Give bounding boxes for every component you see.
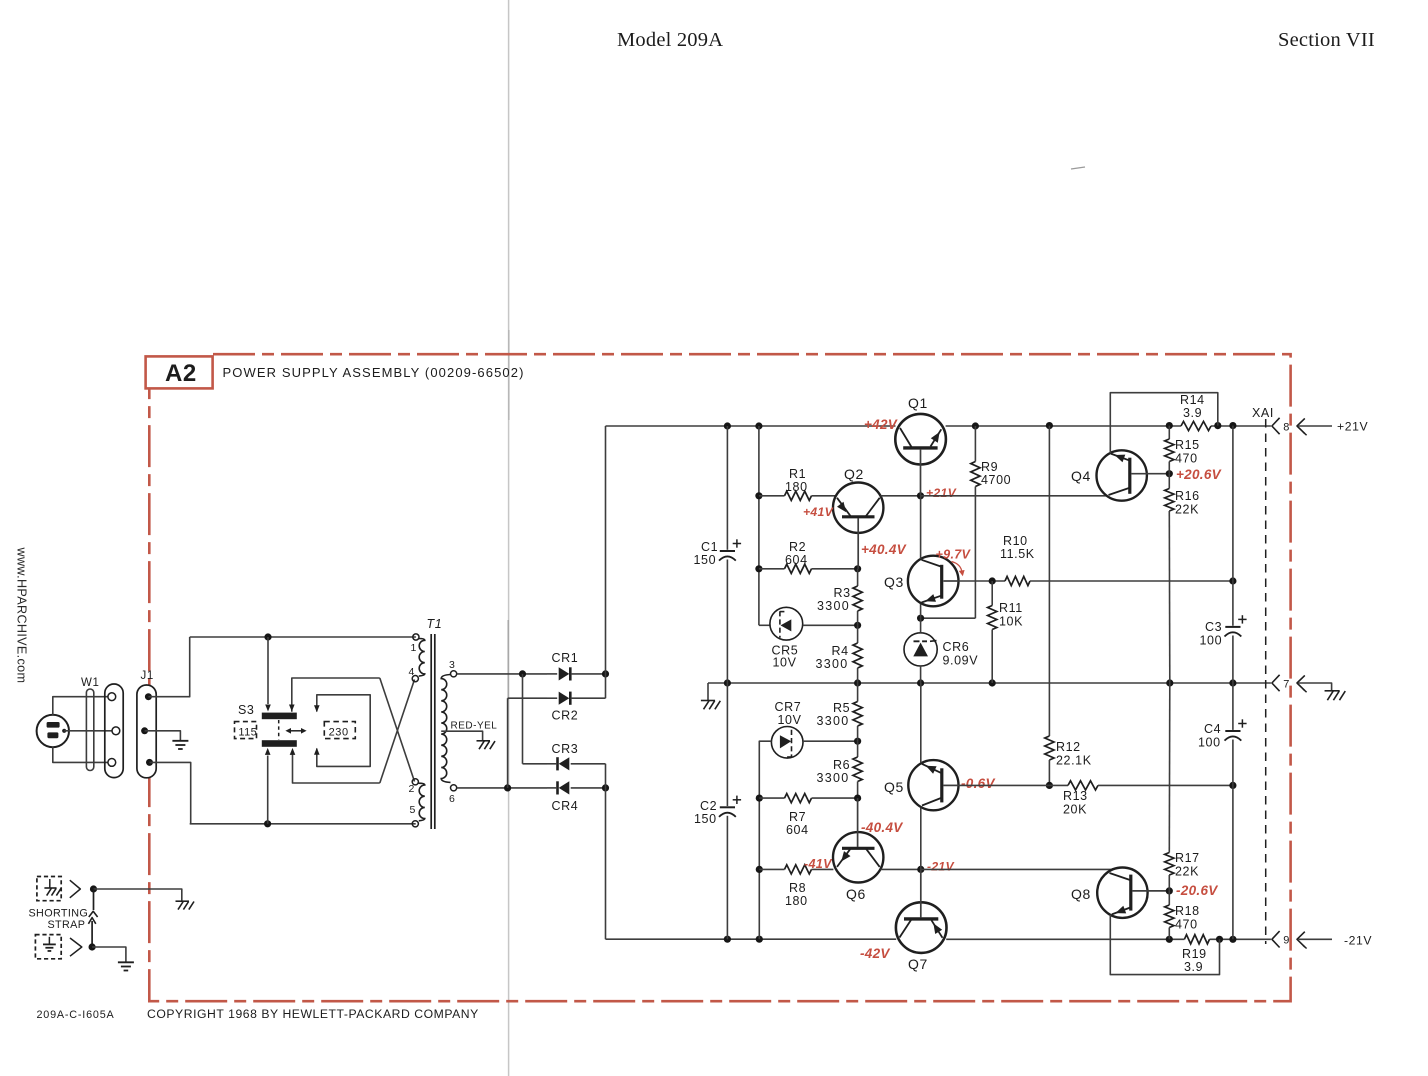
Q2 collector diagonal <box>866 498 880 516</box>
svg-text:J1: J1 <box>141 670 154 682</box>
svg-text:CR4: CR4 <box>552 799 579 813</box>
node R7 left <box>756 795 763 802</box>
wire AC bottom line <box>190 823 416 825</box>
resistor R14 <box>1181 421 1211 430</box>
svg-text:CR1: CR1 <box>552 651 579 665</box>
Q2 base bar <box>842 515 875 518</box>
J1 pin middle <box>141 727 148 734</box>
T1 secondary pin 6 <box>451 785 457 791</box>
svg-text:209A-C-I605A: 209A-C-I605A <box>37 1009 115 1021</box>
wire C4 column top <box>1232 683 1234 730</box>
svg-text:180: 180 <box>785 894 808 908</box>
zener CR7 diode <box>780 735 791 748</box>
plug face pin 1 <box>108 693 116 701</box>
wire J1 top to line <box>148 637 189 697</box>
resistor R1 <box>759 495 785 497</box>
Q3 base lead <box>943 580 958 582</box>
svg-text:R15: R15 <box>1175 438 1200 452</box>
wire J1 bottom to line <box>150 762 191 823</box>
T1 primary pin 1 <box>413 634 419 640</box>
diode CR4 <box>559 781 570 794</box>
capacitor C2 <box>720 806 735 808</box>
XA1 dashed outline <box>1265 419 1267 944</box>
node R11 top <box>989 577 996 584</box>
svg-text:CR6: CR6 <box>943 640 970 654</box>
svg-text:CR3: CR3 <box>552 742 579 756</box>
svg-text:A2: A2 <box>165 360 197 387</box>
node R2 left <box>755 565 762 572</box>
J1 pin bottom <box>146 759 153 766</box>
svg-text:+42V: +42V <box>864 417 898 432</box>
wire pin3 to CR1 <box>457 673 547 675</box>
svg-text:Q5: Q5 <box>884 779 904 795</box>
wire Q6 collector to -21V node <box>881 868 921 870</box>
wire -21V row to Q8 <box>921 868 1113 870</box>
svg-text:R3: R3 <box>834 586 851 600</box>
node CR7 R5 R6 junction <box>854 738 861 745</box>
transistor Q7 circle <box>896 902 947 953</box>
svg-text:Q3: Q3 <box>884 574 904 590</box>
wire CR7 right lead <box>803 740 858 742</box>
node bottom rail left column <box>756 936 763 943</box>
Q8 base lead <box>1132 890 1169 892</box>
svg-text:C3: C3 <box>1205 620 1222 634</box>
svg-text:Model 209A: Model 209A <box>617 29 723 51</box>
svg-text:8: 8 <box>1283 421 1289 433</box>
svg-text:9.09V: 9.09V <box>943 654 979 668</box>
transistor Q2 circle <box>833 483 883 533</box>
node R3 R4 CR5 junction <box>854 622 861 629</box>
svg-text:R8: R8 <box>789 881 806 895</box>
W1 cable bar <box>86 689 93 771</box>
svg-text:+21V: +21V <box>1337 420 1368 434</box>
plug W1 center pin <box>62 729 66 733</box>
node mid rail CR6-Q5 <box>917 679 924 686</box>
node R14 left R15 top <box>1166 422 1173 429</box>
Q6 emitter diagonal <box>837 849 851 867</box>
resistor R11 <box>991 581 993 606</box>
node CR1 cathode junction <box>602 670 609 677</box>
svg-text:R1: R1 <box>789 467 806 481</box>
resistor R6 <box>857 741 859 757</box>
wire +21V row to Q4 <box>921 495 1107 497</box>
Q7 base bar <box>904 917 938 920</box>
J1 pin top <box>145 693 152 700</box>
wire plug middle to connector <box>64 730 112 732</box>
wire -42V bottom rail <box>606 938 897 940</box>
T1 secondary winding <box>441 675 450 783</box>
wire -21V rail R19 to pin9 <box>1210 938 1271 940</box>
svg-text:3300: 3300 <box>817 771 850 785</box>
wire Q5 collector down <box>920 808 922 870</box>
wire top rail Q1 to R14 <box>946 425 1181 427</box>
wire strap top to ground <box>94 889 182 901</box>
S3 movable plate lower <box>262 740 297 747</box>
ground at strap top wire <box>176 900 190 902</box>
strap bottom chevron <box>70 938 82 956</box>
svg-text:R4: R4 <box>832 644 849 658</box>
S3 position 115 box <box>235 722 257 739</box>
resistor R7 <box>759 797 784 799</box>
plug face pin 2 <box>112 727 120 735</box>
svg-text:R6: R6 <box>833 758 850 772</box>
Q1 base bar <box>903 446 937 449</box>
Q7 emitter diagonal <box>932 920 943 938</box>
strap top chevron <box>70 880 81 898</box>
svg-text:R16: R16 <box>1175 489 1200 503</box>
svg-text:115: 115 <box>238 727 257 739</box>
plug face pin 3 <box>108 759 116 767</box>
Q7 base stem <box>920 869 922 917</box>
svg-text:+9.7V: +9.7V <box>936 548 972 562</box>
resistor R3 <box>857 569 859 586</box>
svg-text:R11: R11 <box>999 601 1023 615</box>
svg-text:Q6: Q6 <box>846 886 866 902</box>
diode CR2 <box>559 692 570 705</box>
svg-text:STRAP: STRAP <box>48 919 86 931</box>
svg-text:3300: 3300 <box>817 714 850 728</box>
svg-text:-21V: -21V <box>927 860 955 874</box>
node AC top junction <box>264 633 271 640</box>
svg-text:22.1K: 22.1K <box>1056 754 1092 768</box>
Q2 base stem <box>857 518 859 569</box>
wire AC top line <box>190 636 416 638</box>
zener CR6 circle <box>904 633 937 666</box>
strap link arrow <box>91 921 93 947</box>
Q4 collector diagonal <box>1109 488 1130 495</box>
chassis box ground symbol <box>49 879 51 888</box>
svg-text:T1: T1 <box>427 617 443 631</box>
Q8 emitter diagonal <box>1112 908 1130 915</box>
T1 primary winding upper <box>419 639 425 677</box>
svg-text:470: 470 <box>1175 452 1198 466</box>
Q4 base bar <box>1128 458 1131 494</box>
transistor Q6 circle <box>833 832 883 882</box>
connector pin 8 <box>1272 418 1280 434</box>
ground at J1 <box>172 740 188 742</box>
node R12 column top <box>1046 422 1053 429</box>
svg-text:7: 7 <box>1283 678 1289 690</box>
transistor Q4 circle <box>1097 450 1147 500</box>
svg-text:R14: R14 <box>1180 393 1205 407</box>
wire -0.6V row <box>959 784 1069 786</box>
Q8 collector diagonal <box>1110 873 1131 880</box>
wire top rail R14 to pin8 <box>1211 425 1271 427</box>
svg-text:10K: 10K <box>999 615 1023 629</box>
node AC bottom junction <box>264 820 271 827</box>
svg-text:SHORTING: SHORTING <box>29 908 89 920</box>
svg-text:1: 1 <box>411 642 417 654</box>
Q5 base lead <box>944 784 959 786</box>
svg-text:9: 9 <box>1283 935 1289 947</box>
resistor R9 <box>974 426 976 462</box>
node mid rail C1-C2 <box>724 679 731 686</box>
svg-text:4: 4 <box>409 666 415 678</box>
transistor Q1 circle <box>895 414 946 465</box>
wire C2 bottom lead <box>726 816 728 939</box>
svg-text:Q4: Q4 <box>1071 468 1091 484</box>
Q3 base bar <box>940 565 943 599</box>
wire Q3 emitter to R9 <box>921 617 976 619</box>
svg-text:Q8: Q8 <box>1071 886 1091 902</box>
wire Q3 collector up <box>920 496 922 559</box>
Q1 base stem <box>920 449 922 496</box>
svg-text:XAI: XAI <box>1252 406 1274 420</box>
svg-text:+41V: +41V <box>803 505 834 519</box>
node C3 column top <box>1229 422 1236 429</box>
svg-text:R10: R10 <box>1003 534 1028 548</box>
resistor R17 <box>1168 683 1171 853</box>
wire Q3 emitter down <box>920 604 922 618</box>
svg-text:R2: R2 <box>789 540 806 554</box>
node R19 right loop <box>1216 936 1223 943</box>
resistor R2 <box>759 568 785 570</box>
svg-text:10V: 10V <box>773 656 797 670</box>
svg-text:3300: 3300 <box>816 657 849 671</box>
svg-text:+40.4V: +40.4V <box>861 542 907 557</box>
Q6 base bar <box>842 847 875 850</box>
strap link break chevron <box>89 911 98 917</box>
transistor Q8 circle <box>1097 868 1147 918</box>
svg-text:C2: C2 <box>700 799 717 813</box>
node R6 R7 Q6 junction <box>854 795 861 802</box>
Q1 collector diagonal <box>900 428 912 447</box>
wire J1 middle to ground <box>145 731 181 740</box>
svg-text:6: 6 <box>449 793 455 805</box>
S3 actuator dashed link <box>278 720 280 740</box>
S3 position 230 box <box>324 722 355 739</box>
capacitor C3 <box>1225 626 1240 628</box>
Q8 base bar <box>1129 875 1132 911</box>
node CR4 junction pin6 <box>504 784 511 791</box>
wire R1 column <box>758 426 760 625</box>
wire C3 column top <box>1232 426 1234 626</box>
svg-text:3300: 3300 <box>817 599 850 613</box>
node strap top <box>90 885 97 892</box>
svg-text:-41V: -41V <box>804 857 833 871</box>
wire 0V mid rail <box>708 682 1271 684</box>
wire S3 upper feed <box>267 637 269 704</box>
zener CR5 diode <box>781 619 792 631</box>
connector pin 9 <box>1272 931 1280 947</box>
svg-text:C4: C4 <box>1204 722 1221 736</box>
transistor Q3 circle <box>908 556 959 607</box>
svg-text:-20.6V: -20.6V <box>1176 883 1218 898</box>
Q3 emitter diagonal <box>922 596 941 603</box>
node R8 left <box>756 866 763 873</box>
wire Q2 collector to +21V node <box>881 495 921 497</box>
wire Q8 emitter loop to R19 right <box>1110 915 1219 975</box>
scan speck <box>1071 167 1085 169</box>
resistor R18 <box>1168 891 1170 905</box>
wire +42V top rail left <box>606 425 896 427</box>
wire CR5 left lead <box>759 624 770 626</box>
svg-text:150: 150 <box>694 553 717 567</box>
Q5 emitter diagonal <box>922 764 941 773</box>
node strap bottom <box>89 943 96 950</box>
wire C2 top lead <box>726 683 728 806</box>
svg-text:604: 604 <box>785 553 808 567</box>
ground at strap bottom wire <box>118 961 134 963</box>
wire pin6 to CR4 <box>457 787 547 789</box>
wire Q5 emitter up <box>920 683 922 763</box>
shorting strap earth box <box>35 935 61 959</box>
wire Q4 emitter loop to R14 right <box>1110 393 1218 454</box>
resistor R16 <box>1168 474 1170 489</box>
resistor R13 <box>1068 781 1098 790</box>
wire CR2 to pin6 link <box>507 698 509 788</box>
plug W1 body circle <box>37 715 69 747</box>
Q4 emitter diagonal <box>1111 454 1129 461</box>
wire C4 column bottom <box>1232 740 1234 940</box>
svg-text:R5: R5 <box>833 701 850 715</box>
node CR4 anode junction <box>602 784 609 791</box>
wire CR6 top lead <box>920 618 922 633</box>
svg-text:20K: 20K <box>1063 803 1087 817</box>
svg-text:100: 100 <box>1198 736 1221 750</box>
svg-text:+21V: +21V <box>926 486 957 500</box>
node Q8 base R17 R18 <box>1166 887 1173 894</box>
svg-text:-42V: -42V <box>860 946 890 961</box>
resistor R10 <box>1005 576 1030 585</box>
Q6 base stem <box>857 798 859 847</box>
plug W1 prong lower <box>47 732 58 738</box>
svg-text:R12: R12 <box>1056 740 1081 754</box>
wire plug top to connector <box>53 697 108 715</box>
resistor R15 <box>1168 426 1170 439</box>
node Q1 base Q3 collector <box>917 492 924 499</box>
zener CR5 circle <box>770 607 803 640</box>
svg-text:150: 150 <box>694 812 717 826</box>
node mid rail R16-R17 <box>1166 679 1173 686</box>
svg-text:230: 230 <box>329 727 349 739</box>
wire CR5 right lead <box>803 624 858 626</box>
assembly border A2 (red dash-dot) <box>149 354 1290 1001</box>
node Q4 base R15 R16 <box>1166 470 1173 477</box>
svg-text:CR2: CR2 <box>552 709 579 723</box>
node mid rail R11 <box>989 679 996 686</box>
wire CR3 row left <box>523 763 548 765</box>
svg-text:C1: C1 <box>701 540 718 554</box>
T1 primary pin 2 <box>412 779 418 785</box>
Q6 collector diagonal <box>866 849 880 867</box>
svg-text:-21V: -21V <box>1344 934 1372 948</box>
zener CR6 diode <box>913 643 928 657</box>
node Q2 base junction <box>854 565 861 572</box>
svg-text:3: 3 <box>449 659 455 671</box>
svg-text:R13: R13 <box>1063 789 1088 803</box>
wire strap bottom to ground <box>92 947 126 962</box>
T1 primary pin 4 <box>412 676 418 682</box>
plug W1 prong upper <box>47 722 60 728</box>
connector pin 7 <box>1272 675 1280 691</box>
T1 primary winding lower <box>418 783 425 821</box>
wire C1 top lead <box>726 426 728 550</box>
wire CR7 left lead <box>759 741 771 939</box>
node R12 bottom R13 row <box>1046 782 1053 789</box>
wire +21V output <box>1299 425 1333 427</box>
wire negative raw bus <box>605 764 607 939</box>
node R10 right at C3 column <box>1229 577 1236 584</box>
node CR1 anode junction <box>519 670 526 677</box>
ground at T1 center tap <box>477 740 491 742</box>
wire R12 column <box>1048 426 1050 736</box>
strap link upper <box>93 889 95 910</box>
resistor R12 <box>1045 736 1054 760</box>
wire plug bottom to connector <box>53 747 108 762</box>
T1 core <box>430 634 432 829</box>
Q4 base lead <box>1131 473 1169 475</box>
wire crossover lower to pin4 <box>380 680 415 784</box>
wire pin3 branch down to CR3 <box>522 674 524 764</box>
svg-text:Q7: Q7 <box>908 956 928 972</box>
svg-text:10V: 10V <box>778 713 802 727</box>
Q5 collector diagonal <box>922 798 941 806</box>
svg-text:R19: R19 <box>1182 947 1207 961</box>
node Q3 emitter CR6 <box>917 615 924 622</box>
wire crossover upper to pin2 <box>380 678 415 782</box>
ground at pin 7 <box>1325 690 1340 692</box>
svg-text:R9: R9 <box>981 460 998 474</box>
node bottom rail C4 <box>1229 936 1236 943</box>
svg-text:11.5K: 11.5K <box>1000 547 1035 561</box>
svg-text:W1: W1 <box>81 677 99 689</box>
svg-text:Section VII: Section VII <box>1278 29 1375 51</box>
diode CR1 <box>559 667 570 680</box>
svg-text:4700: 4700 <box>981 473 1011 487</box>
svg-text:2: 2 <box>409 783 415 795</box>
node R14 right <box>1214 422 1221 429</box>
svg-text:Q1: Q1 <box>908 395 928 411</box>
earth box ground symbol <box>48 937 50 944</box>
Q1 emitter diagonal <box>931 429 942 446</box>
wire 230 loop <box>317 695 370 767</box>
T1 secondary pin 3 <box>451 671 457 677</box>
T1 primary pin 5 <box>412 821 418 827</box>
node mid rail C3-C4 <box>1229 679 1236 686</box>
svg-text:CR7: CR7 <box>775 700 802 714</box>
node R1 left <box>755 492 762 499</box>
S3 motion double arrow <box>288 730 304 732</box>
resistor R8 <box>759 868 784 870</box>
wire -21V rail Q7 to R19 <box>946 938 1184 940</box>
svg-text:RED-YEL: RED-YEL <box>451 721 498 732</box>
wire C3 column bottom <box>1232 636 1234 684</box>
wire positive raw bus <box>605 426 607 698</box>
svg-text:+20.6V: +20.6V <box>1176 467 1222 482</box>
resistor R4 <box>857 625 859 643</box>
S3 movable plate upper <box>262 713 297 720</box>
page fold line <box>508 0 510 1076</box>
resistor R5 <box>857 683 859 702</box>
wire S3 second pole upper <box>292 678 380 712</box>
wire Q3 base row <box>958 580 1005 582</box>
T1 center tap RED-YEL <box>441 731 482 740</box>
shorting strap chassis box <box>37 877 61 901</box>
node R13 right at C4 column <box>1229 782 1236 789</box>
node R9 top <box>972 422 979 429</box>
wire CR2 anode drop <box>508 697 547 699</box>
svg-text:3.9: 3.9 <box>1184 960 1203 974</box>
connector J1 outline <box>137 685 156 778</box>
zener CR7 circle <box>771 727 803 759</box>
node R1 column top <box>755 422 762 429</box>
capacitor C1 <box>720 550 735 552</box>
wire S3 second pole lower <box>293 755 380 784</box>
svg-text:604: 604 <box>786 823 809 837</box>
svg-text:22K: 22K <box>1175 865 1199 879</box>
svg-text:R17: R17 <box>1175 851 1200 865</box>
